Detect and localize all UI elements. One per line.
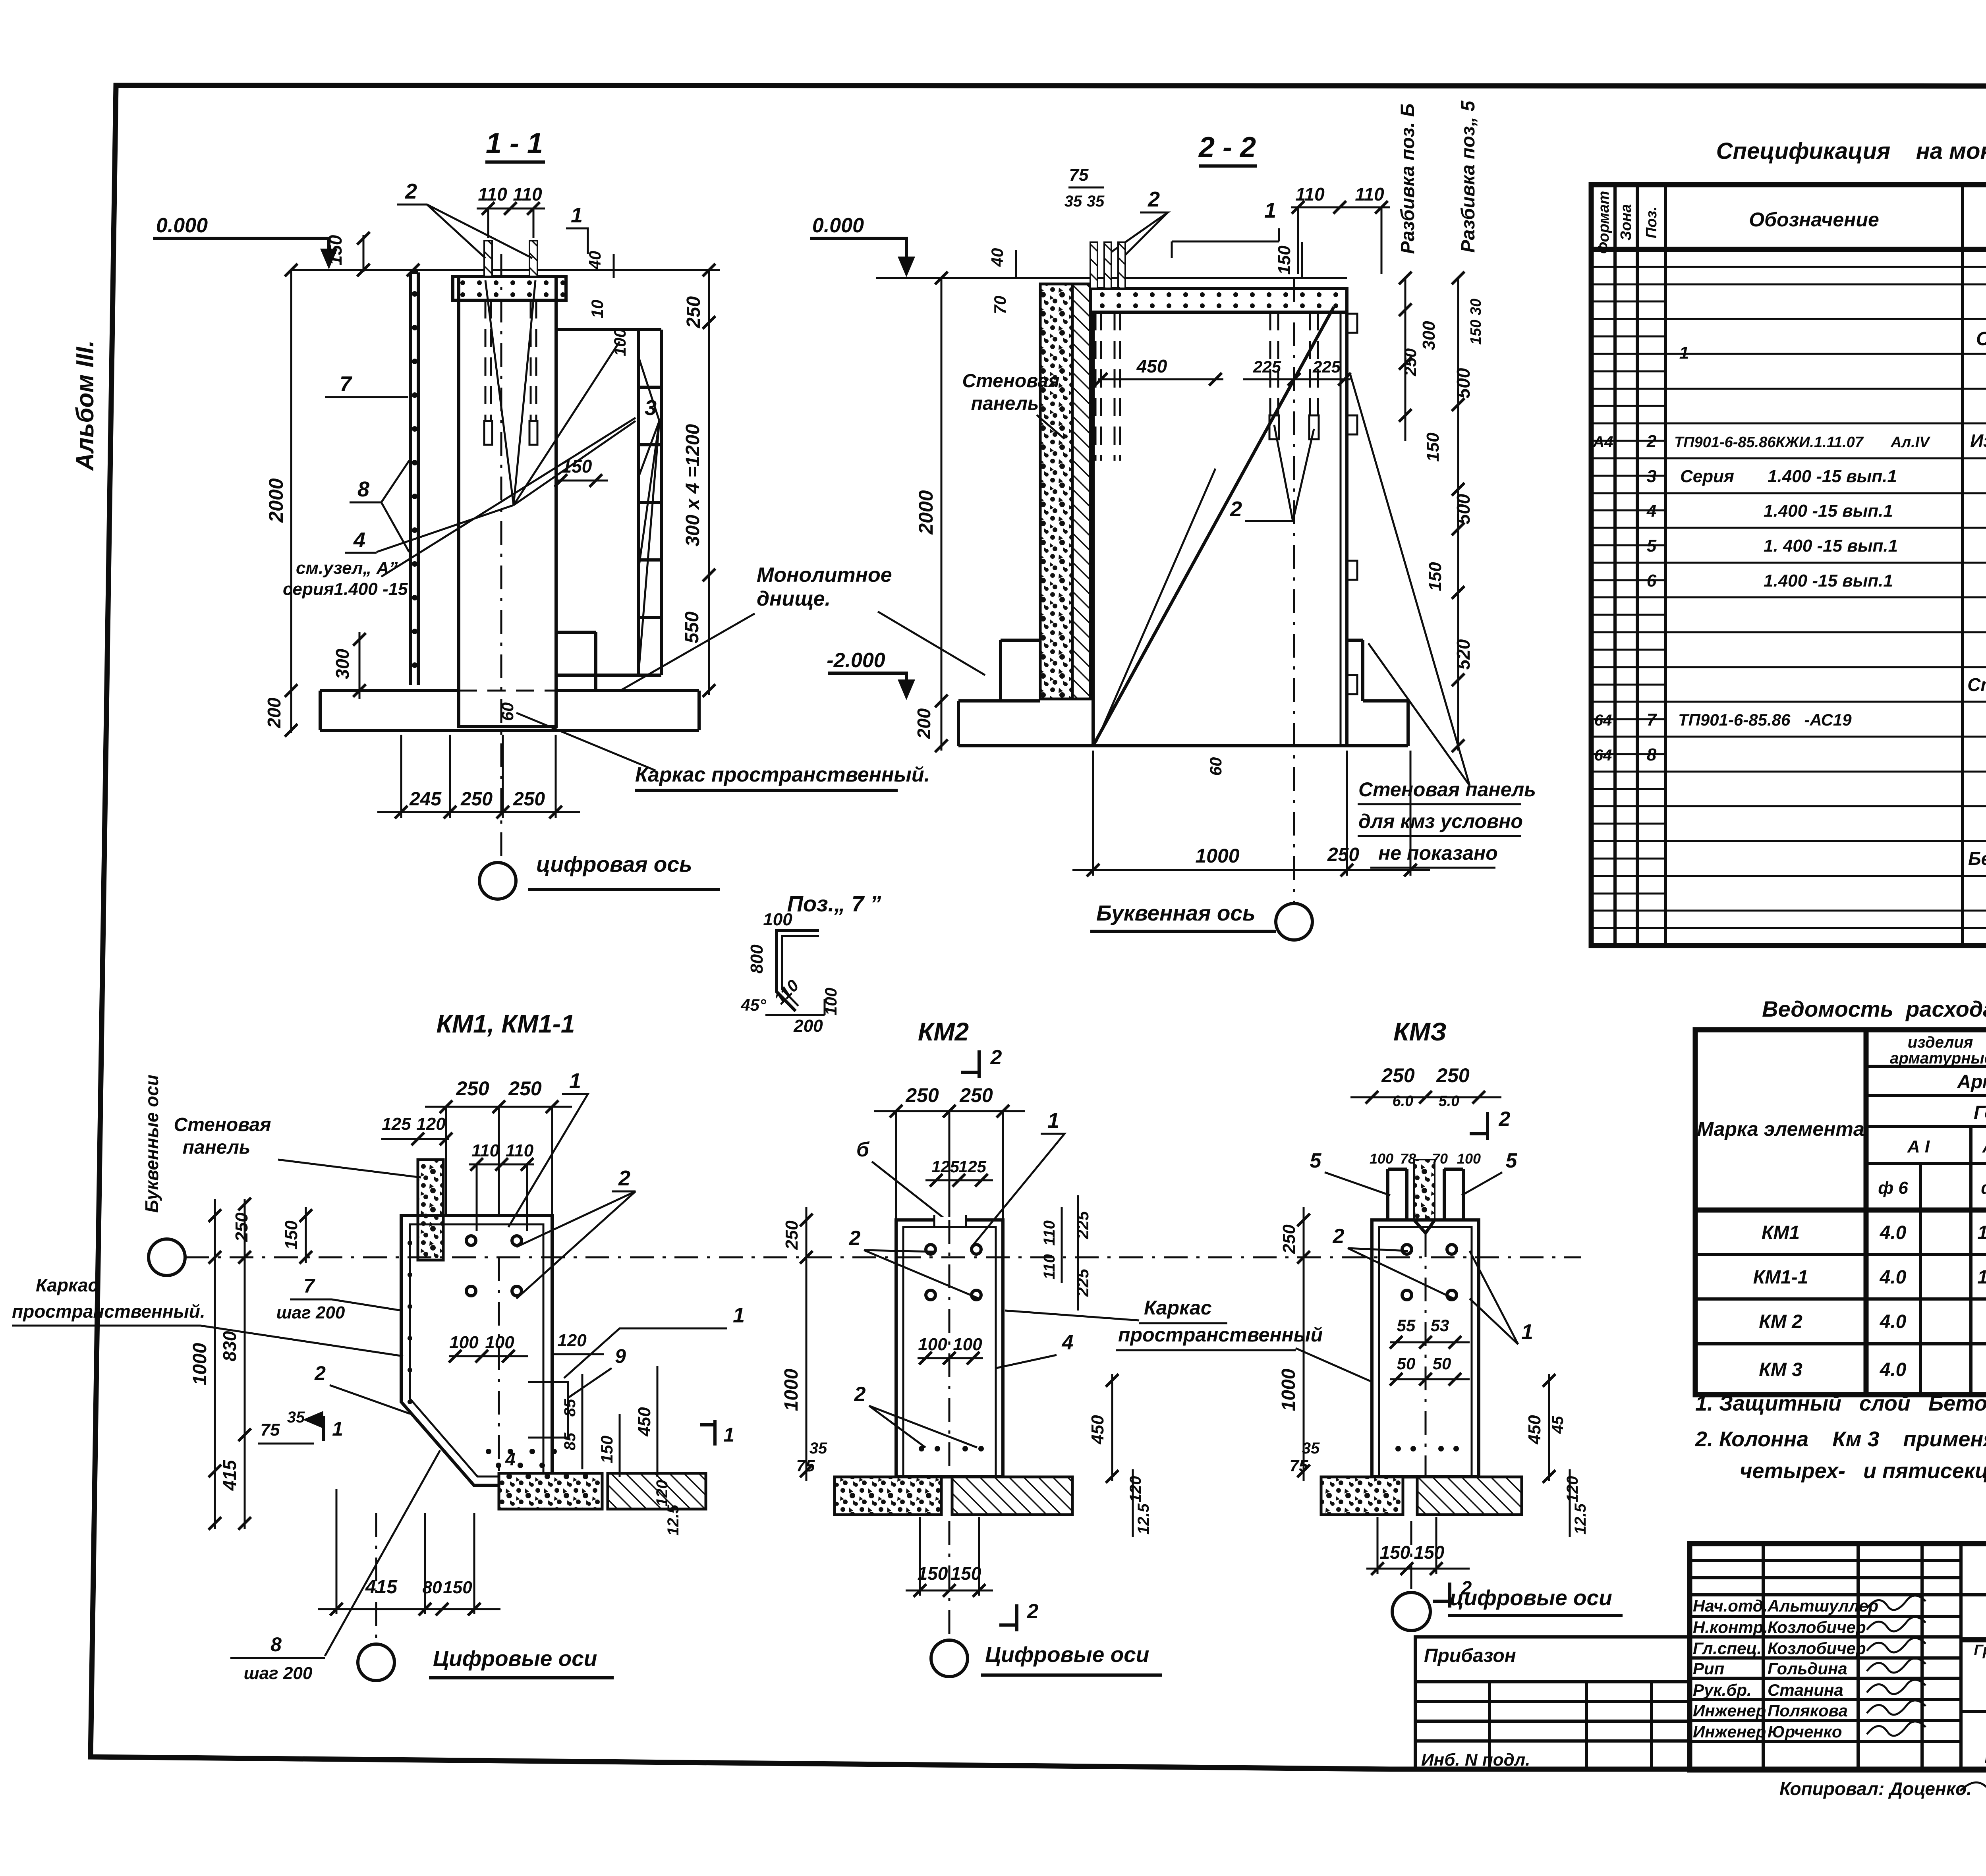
svg-text:б: б	[856, 1138, 870, 1161]
svg-text:5: 5	[1310, 1149, 1322, 1172]
svg-text:Гл.спец.: Гл.спец.	[1693, 1639, 1762, 1658]
svg-text:1: 1	[569, 1069, 581, 1093]
svg-text:150: 150	[282, 1220, 301, 1250]
svg-text:1. Защитный слой Бетона: 1. Защитный слой Бетона для колонн - 25м…	[1695, 1392, 1986, 1415]
svg-text:150: 150	[951, 1563, 981, 1584]
svg-text:64: 64	[1594, 747, 1612, 764]
svg-text:Каркас: Каркас	[1144, 1297, 1212, 1319]
svg-text:2000: 2000	[265, 478, 287, 523]
svg-text:150: 150	[1414, 1542, 1445, 1563]
svg-text:Козлобичер: Козлобичер	[1768, 1639, 1866, 1658]
svg-text:4.0: 4.0	[1880, 1359, 1907, 1380]
svg-text:300: 300	[332, 648, 353, 679]
svg-text:Альбом III.: Альбом III.	[71, 340, 99, 471]
svg-text:110: 110	[513, 184, 542, 205]
svg-text:120: 120	[1564, 1476, 1581, 1503]
svg-text:5: 5	[1506, 1149, 1518, 1172]
svg-text:Копировал: Доценко.: Копировал: Доценко.	[1779, 1778, 1972, 1799]
svg-text:250: 250	[683, 296, 704, 328]
svg-text:четырех- и пятисекционной: четырех- и пятисекционной градирен.	[1740, 1459, 1986, 1483]
svg-text:Буквенные оси: Буквенные оси	[141, 1075, 162, 1213]
svg-text:4: 4	[505, 1449, 516, 1469]
svg-text:1: 1	[1521, 1320, 1533, 1344]
svg-text:1.400 -15 вып.1: 1.400 -15 вып.1	[1764, 501, 1893, 521]
svg-text:4: 4	[1062, 1331, 1074, 1354]
svg-text:Стеновая: Стеновая	[174, 1114, 271, 1135]
svg-text:1.400 -15 вып.1: 1.400 -15 вып.1	[1764, 571, 1893, 591]
svg-text:7: 7	[340, 372, 353, 396]
svg-text:изделия: изделия	[1908, 1034, 1973, 1051]
svg-text:ф 8: ф 8	[1981, 1178, 1986, 1198]
svg-text:2. Колонна Км 3 применяе: 2. Колонна Км 3 применяется только для	[1695, 1427, 1986, 1451]
svg-text:200: 200	[914, 708, 934, 739]
svg-text:125: 125	[382, 1114, 411, 1134]
svg-text:1: 1	[723, 1424, 734, 1446]
svg-text:110: 110	[478, 184, 507, 205]
svg-text:110: 110	[1295, 184, 1325, 205]
svg-text:35: 35	[287, 1409, 305, 1426]
svg-text:Нач.отд.: Нач.отд.	[1693, 1596, 1768, 1615]
svg-text:60: 60	[1206, 757, 1225, 776]
svg-text:250: 250	[1279, 1224, 1299, 1254]
svg-text:1000: 1000	[781, 1368, 802, 1411]
svg-text:150: 150	[443, 1578, 472, 1597]
svg-text:300 х 4 =1200: 300 х 4 =1200	[682, 424, 703, 547]
svg-text:2: 2	[618, 1166, 630, 1190]
svg-text:для кмз условно: для кмз условно	[1358, 810, 1523, 832]
svg-text:150: 150	[918, 1563, 948, 1584]
svg-text:2: 2	[1646, 432, 1657, 451]
svg-text:830: 830	[219, 1331, 240, 1361]
svg-text:КМЗ: КМЗ	[1393, 1017, 1447, 1046]
svg-text:Буквенная ось: Буквенная ось	[1096, 901, 1256, 925]
svg-text:Ал.IV: Ал.IV	[1890, 434, 1930, 451]
svg-text:2: 2	[1148, 187, 1160, 211]
svg-text:0.000: 0.000	[156, 214, 208, 237]
svg-text:250: 250	[508, 1077, 542, 1100]
svg-text:АIII: АIII	[1982, 1137, 1986, 1156]
svg-text:Стержень, ГОСТ-5781-82: Стержень, ГОСТ-5781-82	[1967, 674, 1986, 695]
svg-text:35: 35	[1087, 193, 1105, 210]
svg-text:45°: 45°	[740, 996, 767, 1014]
svg-text:8: 8	[270, 1633, 282, 1656]
svg-text:КМ 2: КМ 2	[1759, 1311, 1802, 1332]
svg-text:415: 415	[219, 1459, 240, 1491]
svg-text:шаг 200: шаг 200	[244, 1664, 313, 1683]
svg-text:КМ1, КМ1-1, КМ2, КМЗ .: КМ1, КМ1-1, КМ2, КМЗ .	[1984, 1743, 1986, 1768]
svg-text:1: 1	[332, 1418, 343, 1440]
svg-text:200: 200	[264, 697, 284, 728]
svg-text:4.0: 4.0	[1880, 1267, 1907, 1288]
svg-text:2: 2	[1027, 1600, 1039, 1623]
svg-text:7: 7	[303, 1275, 315, 1297]
svg-text:панель: панель	[183, 1137, 251, 1158]
svg-text:Поз.: Поз.	[1643, 207, 1660, 239]
svg-text:шаг 200: шаг 200	[276, 1303, 345, 1322]
svg-text:12.5: 12.5	[1572, 1503, 1589, 1534]
svg-text:2: 2	[1499, 1108, 1511, 1131]
svg-text:100: 100	[1457, 1150, 1481, 1167]
svg-text:150: 150	[1275, 245, 1294, 275]
svg-text:150: 150	[1426, 562, 1445, 591]
svg-text:250: 250	[232, 1212, 251, 1242]
svg-text:Инб. N подл.: Инб. N подл.	[1421, 1750, 1530, 1770]
svg-text:цифровая ось: цифровая ось	[536, 852, 692, 876]
svg-text:250: 250	[1381, 1064, 1415, 1087]
svg-text:40: 40	[988, 248, 1007, 267]
svg-text:250: 250	[1436, 1064, 1470, 1087]
svg-text:КМ1, КМ1-1: КМ1, КМ1-1	[437, 1009, 575, 1038]
svg-text:8: 8	[357, 477, 369, 501]
svg-text:пространственный.: пространственный.	[12, 1301, 205, 1322]
svg-text:Козлобичер: Козлобичер	[1768, 1618, 1866, 1637]
svg-text:4: 4	[353, 528, 365, 552]
svg-text:КМ 3: КМ 3	[1759, 1359, 1802, 1380]
svg-text:100: 100	[953, 1335, 982, 1354]
svg-text:450: 450	[1136, 356, 1167, 376]
svg-text:110: 110	[1355, 184, 1384, 205]
svg-text:не показано: не показано	[1378, 842, 1498, 864]
svg-text:225: 225	[1073, 1211, 1092, 1239]
svg-text:1000: 1000	[1195, 845, 1239, 867]
svg-text:5.0: 5.0	[1439, 1093, 1460, 1110]
svg-text:100: 100	[918, 1335, 947, 1354]
svg-text:110: 110	[506, 1141, 534, 1160]
svg-text:35: 35	[1302, 1440, 1320, 1457]
svg-text:2: 2	[849, 1227, 861, 1250]
svg-text:днище.: днище.	[757, 587, 831, 610]
svg-text:Гольдина: Гольдина	[1768, 1659, 1847, 1678]
svg-text:1000: 1000	[1278, 1368, 1299, 1411]
svg-text:125: 125	[931, 1157, 960, 1176]
svg-text:110: 110	[1041, 1254, 1058, 1280]
svg-text:120: 120	[1127, 1476, 1144, 1503]
svg-text:Инженер: Инженер	[1693, 1722, 1766, 1741]
svg-text:120: 120	[416, 1114, 446, 1134]
svg-text:75: 75	[1069, 165, 1089, 185]
svg-text:70: 70	[991, 296, 1009, 315]
svg-text:250: 250	[1401, 348, 1420, 376]
svg-text:520: 520	[1453, 639, 1474, 670]
svg-text:Марка элемента: Марка элемента	[1697, 1118, 1864, 1140]
svg-text:-2.000: -2.000	[827, 649, 885, 672]
svg-text:12.5: 12.5	[1135, 1503, 1152, 1534]
svg-text:120: 120	[557, 1331, 587, 1350]
svg-text:ТП901-6-85.86КЖИ.1.11.07: ТП901-6-85.86КЖИ.1.11.07	[1674, 434, 1864, 451]
svg-text:2000: 2000	[915, 490, 937, 535]
svg-text:Н.контр.: Н.контр.	[1693, 1618, 1768, 1637]
svg-text:Градирня двухсекционная с вент: Градирня двухсекционная с вентиля-	[1974, 1642, 1986, 1659]
svg-text:150: 150	[1380, 1542, 1410, 1563]
svg-text:10: 10	[588, 300, 607, 318]
svg-text:8: 8	[1647, 745, 1657, 764]
svg-text:53: 53	[1431, 1316, 1449, 1335]
svg-text:1. 400 -15 вып.1: 1. 400 -15 вып.1	[1764, 536, 1898, 556]
svg-text:Юрченко: Юрченко	[1768, 1722, 1842, 1741]
svg-text:64: 64	[1594, 712, 1612, 729]
svg-text:250: 250	[1327, 844, 1359, 865]
svg-text:120: 120	[653, 1480, 671, 1507]
svg-text:100: 100	[763, 910, 792, 929]
svg-text:2: 2	[314, 1362, 326, 1384]
svg-text:50: 50	[1397, 1354, 1416, 1373]
svg-text:85: 85	[561, 1399, 579, 1417]
svg-text:КМ1-1: КМ1-1	[1753, 1267, 1808, 1288]
svg-text:150: 150	[325, 235, 346, 265]
svg-text:110: 110	[1041, 1220, 1058, 1246]
svg-text:4.0: 4.0	[1880, 1222, 1907, 1243]
svg-text:250: 250	[959, 1084, 993, 1106]
svg-text:78: 78	[1400, 1150, 1416, 1167]
svg-text:ф 6: ф 6	[1878, 1178, 1908, 1198]
svg-text:арматурные: арматурные	[1890, 1050, 1986, 1067]
svg-text:15.7: 15.7	[1977, 1222, 1986, 1243]
svg-text:Арматура класса: Арматура класса	[1957, 1071, 1986, 1092]
svg-text:55: 55	[1397, 1316, 1416, 1335]
svg-text:Стеновая панель: Стеновая панель	[1358, 778, 1536, 801]
svg-text:6: 6	[1647, 571, 1657, 591]
svg-text:1: 1	[1264, 199, 1276, 222]
svg-text:245: 245	[409, 789, 442, 810]
svg-text:200: 200	[793, 1016, 823, 1036]
svg-text:цифровые оси: цифровые оси	[1450, 1585, 1612, 1610]
svg-text:415: 415	[365, 1577, 398, 1598]
svg-text:Гост 5781 - 82: Гост 5781 - 82	[1974, 1102, 1986, 1123]
svg-text:450: 450	[1088, 1415, 1107, 1445]
svg-text:Полякова: Полякова	[1768, 1701, 1848, 1720]
svg-text:75: 75	[1290, 1456, 1308, 1475]
svg-text:Формат: Формат	[1596, 191, 1612, 254]
svg-text:1: 1	[1047, 1109, 1059, 1133]
svg-text:2: 2	[405, 179, 417, 203]
svg-text:225: 225	[1253, 357, 1281, 376]
svg-text:110: 110	[471, 1141, 500, 1160]
svg-text:Зона: Зона	[1618, 204, 1634, 241]
svg-text:А4: А4	[1592, 433, 1613, 451]
svg-text:45: 45	[1549, 1416, 1567, 1434]
svg-text:225: 225	[1073, 1268, 1092, 1297]
svg-text:Цифровые оси: Цифровые оси	[985, 1642, 1149, 1667]
svg-text:1000: 1000	[189, 1343, 211, 1385]
svg-text:Рип: Рип	[1693, 1659, 1724, 1678]
svg-text:7: 7	[1647, 710, 1658, 730]
svg-text:2: 2	[1333, 1225, 1345, 1248]
svg-text:2: 2	[854, 1383, 866, 1406]
svg-text:75: 75	[261, 1420, 280, 1440]
svg-text:5: 5	[1647, 536, 1657, 556]
svg-text:А I: А I	[1907, 1137, 1930, 1156]
svg-text:50: 50	[1433, 1354, 1451, 1373]
svg-text:Прибазон: Прибазон	[1424, 1645, 1516, 1666]
svg-text:35: 35	[809, 1440, 827, 1457]
svg-text:12.5: 12.5	[665, 1504, 682, 1536]
svg-text:Ведомость расхода стали на: Ведомость расхода стали на элемент, кг.	[1762, 996, 1986, 1021]
svg-text:250: 250	[905, 1084, 939, 1106]
svg-text:4.0: 4.0	[1880, 1311, 1907, 1332]
svg-text:450: 450	[1525, 1415, 1544, 1445]
svg-text:Изделие закладное: Изделие закладное	[1970, 430, 1986, 451]
svg-text:6.0: 6.0	[1393, 1093, 1414, 1110]
svg-text:1 - 1: 1 - 1	[486, 127, 543, 159]
svg-text:250: 250	[456, 1077, 489, 1100]
svg-text:Бетон М: Бетон М	[1968, 848, 1986, 869]
svg-text:пространственный: пространственный	[1118, 1324, 1323, 1346]
svg-text:Поз.„ 7 ”: Поз.„ 7 ”	[787, 891, 881, 916]
svg-text:Рук.бр.: Рук.бр.	[1693, 1681, 1752, 1699]
svg-text:Монолитное: Монолитное	[757, 564, 892, 587]
svg-text:Спецификация на монолитные: Спецификация на монолитные колонны	[1716, 138, 1986, 164]
svg-text:100: 100	[1370, 1150, 1393, 1167]
svg-text:3: 3	[1647, 467, 1656, 486]
svg-text:40: 40	[585, 251, 604, 270]
svg-text:1: 1	[1679, 343, 1689, 363]
svg-text:1.400 -15 вып.1: 1.400 -15 вып.1	[1768, 467, 1897, 486]
svg-text:2: 2	[990, 1046, 1002, 1069]
svg-text:панель: панель	[971, 393, 1039, 414]
svg-text:75: 75	[796, 1456, 815, 1475]
svg-text:70: 70	[1432, 1150, 1448, 1167]
svg-text:ТП901-6-85.86 -АС19: ТП901-6-85.86 -АС19	[1678, 710, 1852, 729]
svg-text:Обозначение: Обозначение	[1749, 208, 1879, 231]
svg-text:0.000: 0.000	[812, 214, 864, 237]
svg-text:85: 85	[561, 1432, 579, 1450]
svg-text:500: 500	[1453, 494, 1474, 524]
svg-text:серия1.400 -15: серия1.400 -15	[283, 579, 408, 599]
svg-text:КМ1: КМ1	[1762, 1222, 1800, 1243]
svg-text:250: 250	[513, 789, 545, 810]
svg-text:Станина: Станина	[1768, 1681, 1843, 1699]
svg-text:60: 60	[498, 703, 517, 721]
svg-text:450: 450	[635, 1407, 654, 1437]
svg-text:125: 125	[958, 1157, 987, 1176]
svg-text:Инженер: Инженер	[1693, 1701, 1766, 1720]
svg-text:Стеновая: Стеновая	[962, 371, 1059, 392]
svg-text:150 30: 150 30	[1468, 299, 1484, 345]
svg-text:Каркас пространственный.: Каркас пространственный.	[635, 763, 930, 786]
svg-text:250: 250	[460, 789, 493, 810]
svg-text:15.7: 15.7	[1977, 1267, 1986, 1288]
svg-text:300: 300	[1419, 321, 1439, 350]
svg-text:35: 35	[1064, 193, 1082, 210]
svg-text:225: 225	[1312, 357, 1341, 376]
svg-text:1: 1	[571, 203, 583, 227]
svg-text:Каркас: Каркас	[36, 1275, 98, 1295]
svg-text:100: 100	[485, 1333, 514, 1352]
svg-text:Разбивка поз„ 5: Разбивка поз„ 5	[1458, 100, 1479, 253]
svg-text:Серия: Серия	[1680, 467, 1734, 486]
svg-text:500: 500	[1453, 368, 1474, 398]
svg-text:250: 250	[782, 1220, 802, 1250]
svg-text:КМ2: КМ2	[918, 1017, 969, 1046]
svg-text:Альтшуллер: Альтшуллер	[1767, 1596, 1878, 1615]
svg-text:800: 800	[747, 944, 767, 974]
svg-text:100: 100	[449, 1333, 479, 1352]
svg-text:150: 150	[597, 1436, 616, 1463]
svg-text:2 - 2: 2 - 2	[1198, 131, 1256, 163]
svg-text:Цифровые оси: Цифровые оси	[433, 1646, 597, 1671]
svg-text:Разбивка поз. Б: Разбивка поз. Б	[1397, 103, 1418, 254]
svg-text:4: 4	[1646, 501, 1656, 521]
svg-text:9: 9	[615, 1345, 626, 1367]
svg-text:150: 150	[1423, 432, 1443, 462]
svg-text:С: С	[1976, 328, 1986, 349]
svg-text:550: 550	[682, 612, 703, 643]
svg-text:1: 1	[733, 1303, 745, 1327]
svg-text:100: 100	[821, 988, 840, 1015]
svg-text:2: 2	[1230, 497, 1242, 521]
